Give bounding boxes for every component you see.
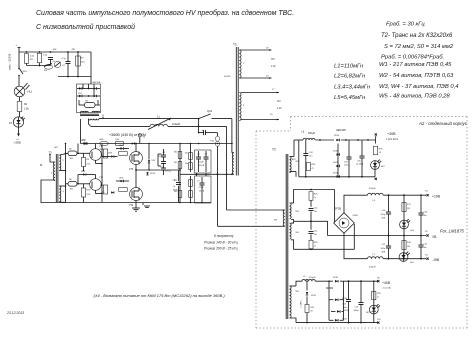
svg-text:1к: 1к — [314, 246, 316, 248]
svg-text:АР5: АР5 — [292, 158, 296, 161]
svg-text:1М: 1М — [407, 208, 410, 210]
svg-text:23.12.2013: 23.12.2013 — [6, 311, 24, 315]
svg-text:W3, W4 - 37 витков, ПЭВ 0,4: W3, W4 - 37 витков, ПЭВ 0,4 — [379, 84, 459, 90]
svg-text:20н д: 20н д — [166, 171, 172, 173]
svg-text:1µ 160В: 1µ 160В — [356, 164, 364, 166]
svg-text:0,1µ: 0,1µ — [62, 58, 67, 60]
svg-text:HU: HU — [271, 58, 275, 61]
svg-text:VT4: VT4 — [129, 205, 134, 207]
svg-text:с 1 МГГц: с 1 МГГц — [301, 299, 303, 308]
svg-text:VD41: VD41 — [333, 162, 338, 164]
svg-text:22н: 22н — [159, 156, 162, 158]
svg-text:2 кV: 2 кV — [271, 65, 276, 68]
svg-text:L2=6,82мГн: L2=6,82мГн — [334, 74, 366, 80]
svg-text:250 В: 250 В — [199, 190, 205, 192]
svg-text:VD32: VD32 — [344, 310, 349, 312]
svg-text:с Iк 0,4 А: с Iк 0,4 А — [382, 286, 392, 289]
svg-text:с Iк 0,16 А: с Iк 0,16 А — [386, 137, 398, 141]
svg-text:570µН: 570µН — [369, 188, 376, 190]
svg-text:L3,4=3,44мГн: L3,4=3,44мГн — [334, 85, 371, 91]
svg-text:43: 43 — [311, 311, 313, 313]
svg-text:0В: 0В — [433, 235, 437, 239]
svg-text:W5 - 48 витков, ПЭВ 0,28: W5 - 48 витков, ПЭВ 0,28 — [379, 94, 450, 100]
svg-text:Розжиг 140 В - 30 кГц: Розжиг 140 В - 30 кГц — [204, 241, 238, 245]
svg-text:30к: 30к — [185, 163, 188, 165]
svg-text:НЕР108: НЕР108 — [336, 128, 346, 132]
svg-text:10н: 10н — [309, 156, 312, 158]
svg-text:+40В: +40В — [382, 281, 391, 285]
svg-text:-19В: -19В — [432, 258, 440, 262]
svg-text:VD10: VD10 — [150, 173, 156, 175]
svg-text:Т2: Т2 — [272, 148, 276, 152]
svg-text:2хТВС: 2хТВС — [224, 76, 231, 78]
svg-text:Т2- Транс на 2х К32х20х6: Т2- Транс на 2х К32х20х6 — [381, 33, 453, 39]
svg-text:L1=110мГн: L1=110мГн — [334, 64, 364, 70]
svg-text:2,2µF: 2,2µF — [199, 162, 205, 164]
svg-text:10н: 10н — [314, 211, 317, 213]
svg-text:1000µ: 1000µ — [354, 310, 360, 312]
svg-text:+30В: +30В — [14, 141, 21, 145]
svg-text:VD38: VD38 — [353, 215, 359, 217]
svg-text:L5=5,45мГн: L5=5,45мГн — [334, 95, 366, 101]
svg-text:VD40: VD40 — [333, 151, 338, 153]
svg-text:VD30: VD30 — [333, 277, 338, 279]
svg-text:470µН: 470µН — [369, 267, 376, 269]
svg-text:110мкГ: 110мкГ — [172, 122, 181, 126]
svg-text:W2 - 54 витков, ПЭТВ 0,63: W2 - 54 витков, ПЭТВ 0,63 — [379, 73, 454, 79]
svg-text:Розжиг 200 В - 25 кГц: Розжиг 200 В - 25 кГц — [204, 247, 238, 251]
svg-text:1н: 1н — [202, 130, 204, 132]
svg-text:110µН: 110µН — [309, 277, 316, 279]
svg-text:Силовая часть импульсного полу: Силовая часть импульсного полумостового … — [36, 9, 294, 17]
svg-text:Pраб. = 0,006784*Fраб.: Pраб. = 0,006784*Fраб. — [381, 55, 444, 61]
svg-text:10н: 10н — [424, 215, 427, 217]
svg-text:QA1: QA1 — [207, 109, 213, 113]
svg-text:К полумосту: К полумосту — [214, 234, 234, 238]
svg-text:А2 - отдельный корпус: А2 - отдельный корпус — [418, 121, 468, 126]
svg-text:сеть ~220 В: сеть ~220 В — [8, 54, 12, 70]
svg-text:2 кV: 2 кV — [277, 107, 282, 110]
svg-text:SF2B: SF2B — [335, 207, 342, 211]
svg-text:(Х4 - Возможно питание от ККМ: (Х4 - Возможно питание от ККМ 175 Вт (МС… — [94, 293, 226, 298]
svg-text:+30В: +30В — [387, 132, 396, 136]
svg-text:250 В: 250 В — [199, 165, 205, 167]
svg-text:VD34: VD34 — [311, 295, 316, 297]
svg-text:VD36: VD36 — [334, 135, 340, 137]
svg-text:100н: 100н — [343, 307, 347, 309]
svg-text:R41: R41 — [174, 162, 177, 164]
svg-text:1,0k: 1,0k — [24, 108, 29, 111]
svg-text:460µН: 460µН — [308, 132, 315, 135]
svg-text:SR360: SR360 — [326, 287, 334, 290]
svg-text:2,2µF: 2,2µF — [199, 187, 205, 189]
svg-text:1к: 1к — [377, 297, 379, 299]
svg-text:1к: 1к — [314, 197, 316, 199]
svg-text:HU: HU — [277, 100, 281, 103]
svg-text:10н: 10н — [314, 234, 317, 236]
svg-text:S = 72 мм2, S0 = 314 мм2: S = 72 мм2, S0 = 314 мм2 — [384, 44, 454, 50]
svg-text:For_LM1875: For_LM1875 — [440, 229, 464, 234]
svg-text:R42: R42 — [174, 180, 177, 182]
svg-text:R43: R43 — [174, 191, 177, 193]
svg-text:30к: 30к — [185, 153, 188, 155]
svg-text:НЕР10В: НЕР10В — [93, 82, 101, 84]
svg-text:Fраб. = 30 кГц: Fраб. = 30 кГц — [386, 22, 425, 28]
svg-text:R24: R24 — [311, 307, 314, 309]
svg-text:Т1: Т1 — [233, 43, 237, 47]
svg-text:С низковольтной приставкой: С низковольтной приставкой — [36, 23, 135, 31]
svg-text:+19В: +19В — [432, 194, 441, 198]
svg-text:100н: 100н — [344, 165, 348, 167]
svg-text:W1 - 217 витков ПЭВ 0,45: W1 - 217 витков ПЭВ 0,45 — [379, 62, 452, 68]
svg-text:HL1: HL1 — [28, 90, 33, 94]
svg-text:VT3: VT3 — [129, 169, 134, 171]
svg-text:R40: R40 — [174, 152, 177, 154]
svg-text:VD44: VD44 — [333, 173, 338, 175]
svg-text:10н: 10н — [424, 247, 427, 249]
svg-text:1М: 1М — [407, 246, 410, 248]
